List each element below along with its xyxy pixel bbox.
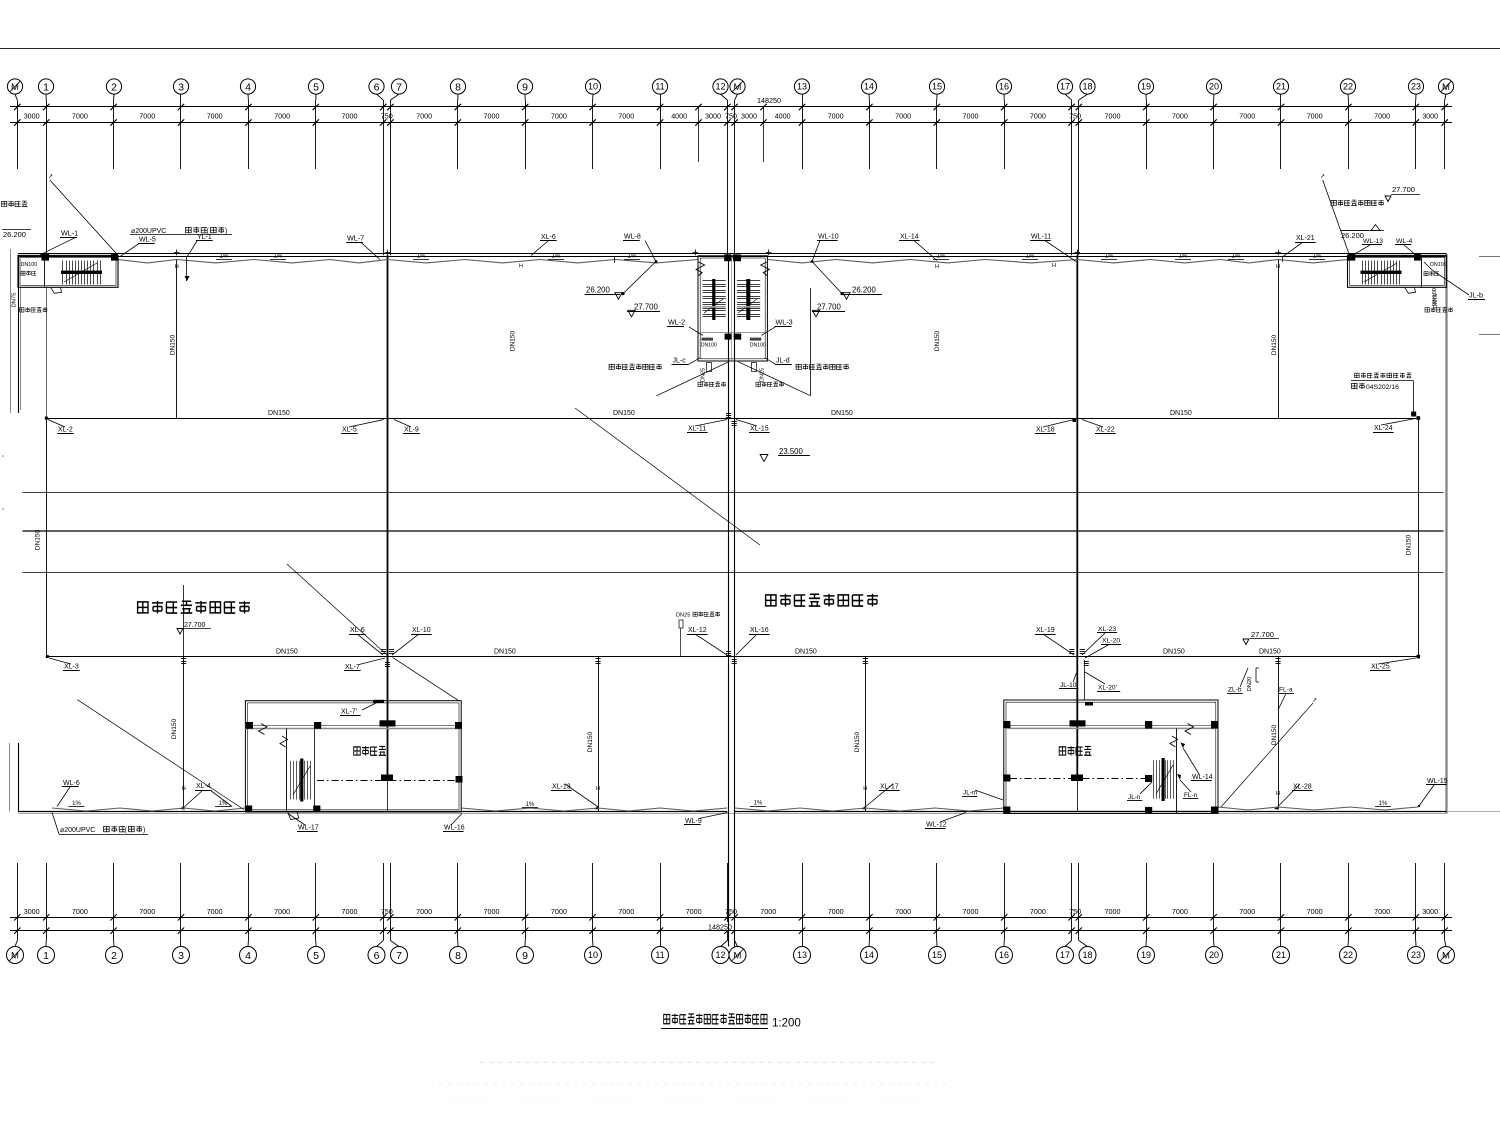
- svg-text:XL-23: XL-23: [1098, 626, 1116, 633]
- svg-text:21: 21: [1276, 82, 1286, 92]
- svg-text:↗: ↗: [1320, 174, 1325, 180]
- svg-text:XL-19: XL-19: [1036, 627, 1055, 634]
- svg-text:ZL-b: ZL-b: [1228, 687, 1242, 694]
- svg-text:1: 1: [43, 81, 49, 93]
- svg-text:750: 750: [725, 112, 737, 121]
- svg-text:7000: 7000: [828, 112, 844, 121]
- svg-text:XL-22: XL-22: [1096, 427, 1115, 434]
- svg-text:7000: 7000: [1105, 112, 1121, 121]
- svg-text:YL-1: YL-1: [197, 234, 212, 241]
- svg-text:XL-12: XL-12: [688, 627, 707, 634]
- svg-text:19: 19: [1141, 950, 1151, 960]
- svg-text:XL-11: XL-11: [688, 426, 706, 433]
- svg-text:XL-7: XL-7: [345, 664, 360, 671]
- svg-text:23.500: 23.500: [779, 447, 804, 456]
- svg-text:DN100: DN100: [701, 343, 717, 349]
- svg-text:1%: 1%: [417, 254, 426, 260]
- svg-text:5: 5: [313, 81, 319, 93]
- svg-text:3000: 3000: [705, 112, 721, 121]
- svg-text:XL-7': XL-7': [341, 709, 357, 716]
- svg-text:1%: 1%: [937, 254, 946, 260]
- svg-text:04S202/16: 04S202/16: [1366, 384, 1399, 391]
- svg-text:XL-13: XL-13: [552, 784, 571, 791]
- svg-text:7000: 7000: [618, 112, 634, 121]
- svg-text:20: 20: [1209, 950, 1219, 960]
- svg-text:7000: 7000: [274, 112, 290, 121]
- svg-text:JL-b: JL-b: [1469, 291, 1483, 300]
- svg-text:XL-15: XL-15: [750, 426, 769, 433]
- svg-text:7000: 7000: [551, 907, 567, 916]
- svg-text:7000: 7000: [963, 112, 979, 121]
- svg-text:7000: 7000: [342, 112, 358, 121]
- svg-text:7000: 7000: [1172, 112, 1188, 121]
- svg-text:4000: 4000: [671, 112, 687, 121]
- svg-text:4000: 4000: [775, 112, 791, 121]
- svg-text:9: 9: [522, 950, 528, 962]
- svg-text:1%: 1%: [628, 254, 637, 260]
- svg-text:3: 3: [178, 950, 184, 962]
- svg-text:7000: 7000: [551, 112, 567, 121]
- svg-text:7000: 7000: [963, 907, 979, 916]
- svg-text:7000: 7000: [618, 907, 634, 916]
- svg-text:7000: 7000: [342, 907, 358, 916]
- svg-text:11: 11: [655, 950, 664, 960]
- svg-text:7000: 7000: [72, 907, 88, 916]
- svg-text:7000: 7000: [207, 907, 223, 916]
- svg-text:750: 750: [1069, 907, 1081, 916]
- svg-text:DN150: DN150: [1163, 649, 1185, 656]
- svg-text:WL-3: WL-3: [776, 318, 793, 327]
- svg-text:DN150: DN150: [276, 649, 298, 656]
- svg-text:⌀200UPVC: ⌀200UPVC: [131, 228, 166, 235]
- svg-text:DN150: DN150: [1271, 724, 1278, 745]
- svg-text:XL-24: XL-24: [1374, 425, 1393, 432]
- svg-text:16: 16: [999, 82, 1009, 92]
- svg-text:WL-4: WL-4: [1396, 238, 1412, 245]
- svg-text:XL-3: XL-3: [64, 664, 79, 671]
- svg-text:DN150: DN150: [1405, 534, 1412, 555]
- svg-text:WL-7: WL-7: [347, 234, 364, 243]
- svg-text:WL-5: WL-5: [139, 237, 156, 244]
- svg-text:15: 15: [932, 950, 942, 960]
- svg-text:27.700: 27.700: [1251, 630, 1274, 639]
- svg-text:1%: 1%: [1179, 254, 1188, 260]
- svg-text:H: H: [1276, 264, 1280, 270]
- svg-text:2: 2: [111, 950, 117, 962]
- svg-text:DN100: DN100: [1432, 288, 1438, 306]
- svg-text:10: 10: [588, 950, 598, 960]
- svg-text:↗: ↗: [1312, 698, 1317, 704]
- svg-text:WL-8: WL-8: [624, 234, 641, 241]
- svg-text:7000: 7000: [139, 907, 155, 916]
- svg-text:DN100: DN100: [21, 262, 38, 268]
- svg-text:WL-11: WL-11: [1031, 234, 1051, 241]
- svg-text:DN25: DN25: [676, 613, 690, 619]
- svg-text:XL-20: XL-20: [1102, 638, 1120, 645]
- svg-text:7000: 7000: [1030, 112, 1046, 121]
- svg-text:WL-9: WL-9: [685, 818, 702, 825]
- svg-text:FL-n: FL-n: [1184, 792, 1198, 799]
- svg-text:WL-13: WL-13: [1363, 238, 1383, 245]
- svg-text:DN150: DN150: [854, 731, 861, 752]
- svg-text:XL-2: XL-2: [58, 427, 73, 434]
- svg-text:3000: 3000: [741, 112, 757, 121]
- svg-text:DN150: DN150: [1271, 334, 1278, 355]
- svg-text:XL-20': XL-20': [1098, 684, 1117, 691]
- svg-text:XL-16: XL-16: [750, 627, 769, 634]
- svg-text:18: 18: [1082, 950, 1092, 960]
- svg-text:): ): [143, 827, 145, 834]
- svg-text:7000: 7000: [1239, 907, 1255, 916]
- svg-text:7000: 7000: [828, 907, 844, 916]
- svg-text:XL-6: XL-6: [541, 234, 556, 241]
- svg-text:DN150: DN150: [1170, 410, 1192, 417]
- svg-text:1%: 1%: [1105, 254, 1114, 260]
- svg-text:7000: 7000: [72, 112, 88, 121]
- svg-text:7000: 7000: [274, 907, 290, 916]
- svg-text:22: 22: [1343, 82, 1353, 92]
- svg-text:H: H: [182, 786, 186, 792]
- svg-text:3000: 3000: [1422, 907, 1438, 916]
- svg-text:7000: 7000: [895, 907, 911, 916]
- svg-text:XL-14: XL-14: [900, 234, 919, 241]
- svg-text:H: H: [935, 264, 939, 270]
- svg-text:8: 8: [455, 81, 461, 93]
- svg-text:11: 11: [655, 82, 664, 92]
- svg-text:WL-14: WL-14: [1192, 774, 1213, 781]
- svg-text:DN20: DN20: [1247, 677, 1253, 692]
- svg-text:↗: ↗: [48, 174, 53, 180]
- svg-text:H: H: [863, 786, 867, 792]
- svg-text:WL-6: WL-6: [63, 780, 80, 787]
- svg-text:27.700: 27.700: [1392, 185, 1415, 194]
- svg-text:XL-25: XL-25: [1371, 664, 1390, 671]
- svg-text:4: 4: [245, 950, 251, 962]
- svg-text:26.200: 26.200: [3, 230, 26, 239]
- svg-text:WL-10: WL-10: [818, 234, 839, 241]
- svg-text:6: 6: [374, 950, 380, 962]
- svg-text:26.200: 26.200: [852, 286, 877, 295]
- svg-text:XL-9: XL-9: [404, 427, 419, 434]
- svg-text:750: 750: [381, 112, 393, 121]
- svg-text:3000: 3000: [24, 907, 40, 916]
- svg-text:4: 4: [245, 81, 251, 93]
- svg-text:DN150: DN150: [171, 718, 178, 739]
- svg-text:XL-21: XL-21: [1296, 235, 1315, 242]
- svg-text:10: 10: [588, 82, 598, 92]
- svg-text:DN150: DN150: [587, 731, 594, 752]
- svg-text:): ): [225, 228, 227, 235]
- svg-text:7000: 7000: [686, 907, 702, 916]
- svg-text:WL-17: WL-17: [298, 825, 319, 832]
- svg-text:DN150: DN150: [613, 410, 635, 417]
- svg-text:8: 8: [455, 950, 461, 962]
- svg-text:2: 2: [111, 81, 117, 93]
- svg-text:DN150: DN150: [170, 334, 177, 355]
- svg-text:DN150: DN150: [494, 649, 516, 656]
- svg-text:17: 17: [1060, 82, 1070, 92]
- svg-text:DN75: DN75: [12, 293, 18, 308]
- svg-text:7000: 7000: [207, 112, 223, 121]
- svg-text:7000: 7000: [1307, 907, 1323, 916]
- svg-text:27.700: 27.700: [817, 303, 842, 312]
- svg-text:H: H: [519, 264, 523, 270]
- svg-text:DN150: DN150: [510, 330, 517, 351]
- svg-text:1%: 1%: [552, 254, 561, 260]
- svg-text:7000: 7000: [1239, 112, 1255, 121]
- svg-text:13: 13: [797, 950, 807, 960]
- svg-text:WL-1: WL-1: [61, 229, 78, 238]
- svg-text:7000: 7000: [416, 907, 432, 916]
- svg-text:H: H: [596, 786, 600, 792]
- svg-text:7000: 7000: [895, 112, 911, 121]
- svg-text:7000: 7000: [1172, 907, 1188, 916]
- svg-text:7000: 7000: [1374, 907, 1390, 916]
- svg-text:12: 12: [715, 82, 725, 92]
- svg-text:23: 23: [1411, 950, 1421, 960]
- svg-text:XL-28: XL-28: [1293, 784, 1312, 791]
- svg-text:7000: 7000: [760, 907, 776, 916]
- svg-text:12: 12: [715, 950, 725, 960]
- svg-text:7000: 7000: [484, 907, 500, 916]
- svg-text:3: 3: [178, 81, 184, 93]
- svg-text:XL-10: XL-10: [412, 627, 431, 634]
- svg-text:7000: 7000: [1105, 907, 1121, 916]
- svg-text:148250: 148250: [757, 96, 781, 105]
- svg-text:26.200: 26.200: [1341, 231, 1364, 240]
- svg-text:20: 20: [1209, 82, 1219, 92]
- svg-text:XL-18: XL-18: [1036, 427, 1055, 434]
- svg-text:DN150: DN150: [831, 410, 853, 417]
- svg-text:DN150: DN150: [934, 330, 941, 351]
- svg-text:H: H: [1052, 263, 1056, 269]
- svg-text:15: 15: [932, 82, 942, 92]
- svg-text:7000: 7000: [484, 112, 500, 121]
- svg-text:7000: 7000: [139, 112, 155, 121]
- svg-text:DN150: DN150: [34, 529, 41, 550]
- svg-text:750: 750: [1069, 112, 1081, 121]
- svg-text:14: 14: [864, 82, 874, 92]
- svg-text:H: H: [175, 264, 179, 270]
- svg-text:23: 23: [1411, 82, 1421, 92]
- svg-text:DN100: DN100: [1430, 262, 1447, 268]
- svg-text:⌀200UPVC: ⌀200UPVC: [60, 827, 95, 834]
- svg-text:750: 750: [381, 907, 393, 916]
- svg-text:WL-12: WL-12: [926, 822, 947, 829]
- svg-text:13: 13: [797, 82, 807, 92]
- svg-text:JL-d: JL-d: [776, 358, 790, 365]
- svg-text:7: 7: [396, 950, 402, 962]
- svg-text:17: 17: [1060, 950, 1070, 960]
- svg-text:26.200: 26.200: [586, 286, 611, 295]
- svg-text:XL-5: XL-5: [342, 427, 357, 434]
- svg-text:7000: 7000: [1374, 112, 1390, 121]
- svg-text:18: 18: [1082, 82, 1092, 92]
- svg-text:WL-15: WL-15: [1427, 778, 1448, 785]
- svg-text:750: 750: [725, 907, 737, 916]
- svg-text:DN100: DN100: [750, 343, 766, 349]
- svg-text:WL-16: WL-16: [444, 825, 465, 832]
- svg-text:21: 21: [1276, 950, 1286, 960]
- svg-text:1%: 1%: [220, 254, 229, 260]
- svg-text:3000: 3000: [24, 112, 40, 121]
- svg-text:H: H: [1276, 791, 1280, 797]
- svg-text:WL-2: WL-2: [668, 318, 685, 327]
- svg-text:1%: 1%: [274, 254, 283, 260]
- svg-text:27.700: 27.700: [634, 303, 659, 312]
- svg-text:1: 1: [43, 950, 49, 962]
- svg-text:14: 14: [864, 950, 874, 960]
- svg-text:22: 22: [1343, 950, 1353, 960]
- svg-text:5: 5: [313, 950, 319, 962]
- svg-text:JL-c: JL-c: [673, 358, 687, 365]
- svg-text:JL-10: JL-10: [1060, 682, 1077, 689]
- svg-text:JL-n: JL-n: [1128, 794, 1141, 801]
- svg-text:DN25: DN25: [760, 368, 766, 382]
- svg-text:JL-m: JL-m: [963, 790, 977, 797]
- svg-text:27.700: 27.700: [184, 622, 206, 629]
- svg-text:7000: 7000: [416, 112, 432, 121]
- svg-text:9: 9: [522, 81, 528, 93]
- svg-text:1%: 1%: [754, 801, 763, 807]
- svg-text:6: 6: [374, 81, 380, 93]
- svg-text:16: 16: [999, 950, 1009, 960]
- svg-text:1%: 1%: [1232, 254, 1241, 260]
- svg-text:DN150: DN150: [1259, 649, 1281, 656]
- svg-text:19: 19: [1141, 82, 1151, 92]
- svg-text:7000: 7000: [1030, 907, 1046, 916]
- svg-text:3000: 3000: [1422, 112, 1438, 121]
- svg-text:1%: 1%: [1313, 254, 1322, 260]
- svg-text:1%: 1%: [1026, 254, 1035, 260]
- svg-text:7: 7: [396, 81, 402, 93]
- svg-text:FL-a: FL-a: [1279, 687, 1293, 694]
- svg-text:7000: 7000: [1307, 112, 1323, 121]
- svg-text:DN150: DN150: [268, 410, 290, 417]
- svg-text:DN150: DN150: [795, 649, 817, 656]
- svg-text:1:200: 1:200: [772, 1018, 801, 1030]
